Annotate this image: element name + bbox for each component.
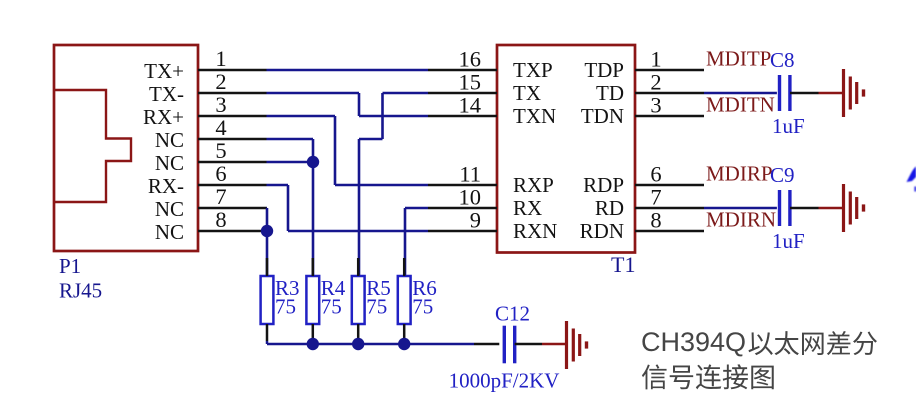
svg-text:11: 11 (459, 162, 481, 187)
svg-text:CH394Q: CH394Q (641, 327, 746, 357)
svg-text:NC: NC (155, 151, 184, 175)
svg-text:RX-: RX- (148, 174, 184, 198)
svg-text:C9: C9 (770, 163, 795, 187)
svg-text:15: 15 (459, 70, 482, 95)
svg-text:75: 75 (412, 295, 433, 319)
svg-text:TX-: TX- (149, 82, 184, 106)
svg-text:T1: T1 (611, 252, 635, 277)
svg-text:C8: C8 (770, 48, 795, 72)
svg-text:TX: TX (513, 81, 541, 105)
svg-text:14: 14 (459, 93, 482, 118)
svg-text:1: 1 (650, 47, 661, 72)
svg-text:1000pF/2KV: 1000pF/2KV (449, 369, 560, 393)
svg-text:RX: RX (513, 196, 542, 220)
svg-text:1: 1 (215, 46, 226, 71)
svg-text:6: 6 (650, 162, 661, 187)
svg-text:1uF: 1uF (772, 114, 805, 138)
svg-text:TD: TD (596, 81, 624, 105)
svg-text:MDITP: MDITP (706, 47, 771, 71)
svg-text:3: 3 (650, 93, 661, 118)
svg-text:RXP: RXP (513, 173, 554, 197)
svg-text:NC: NC (155, 197, 184, 221)
svg-text:16: 16 (459, 47, 482, 72)
svg-text:RDP: RDP (583, 173, 624, 197)
svg-text:TXN: TXN (513, 104, 556, 128)
svg-text:7: 7 (650, 185, 661, 210)
svg-text:NC: NC (155, 128, 184, 152)
svg-text:8: 8 (215, 207, 226, 232)
svg-text:6: 6 (215, 161, 226, 186)
svg-text:75: 75 (275, 295, 296, 319)
svg-text:TDN: TDN (581, 104, 624, 128)
svg-text:2: 2 (650, 70, 661, 95)
svg-text:C12: C12 (495, 302, 530, 326)
svg-text:10: 10 (459, 185, 482, 210)
svg-text:TXP: TXP (513, 58, 553, 82)
svg-text:4: 4 (215, 115, 226, 140)
svg-text:RDN: RDN (580, 219, 624, 243)
svg-text:RD: RD (595, 196, 624, 220)
svg-text:MDIRN: MDIRN (706, 208, 776, 232)
svg-text:RX+: RX+ (143, 105, 184, 129)
svg-text:9: 9 (470, 208, 481, 233)
svg-text:NC: NC (155, 220, 184, 244)
svg-text:TDP: TDP (584, 58, 624, 82)
svg-text:3: 3 (215, 92, 226, 117)
svg-text:75: 75 (321, 295, 342, 319)
svg-text:P1: P1 (59, 254, 81, 278)
svg-text:MDIRP: MDIRP (706, 162, 773, 186)
svg-text:75: 75 (366, 295, 387, 319)
svg-text:MDITN: MDITN (706, 93, 775, 117)
svg-text:RXN: RXN (513, 219, 557, 243)
svg-text:TX+: TX+ (144, 59, 184, 83)
svg-text:5: 5 (215, 138, 226, 163)
svg-text:8: 8 (650, 208, 661, 233)
svg-text:1uF: 1uF (772, 229, 805, 253)
svg-text:RJ45: RJ45 (59, 279, 102, 303)
svg-text:7: 7 (215, 184, 226, 209)
svg-text:2: 2 (215, 69, 226, 94)
